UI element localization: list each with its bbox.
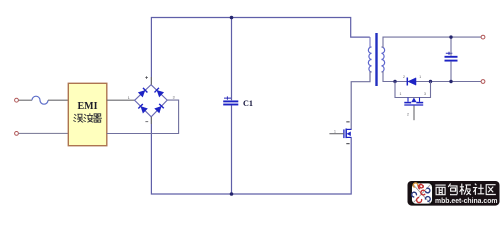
bridge gray stubs (150, 77, 152, 85)
diode BR1-D4 lower-right (155, 104, 164, 113)
svg-text:3: 3 (173, 96, 175, 100)
label 滤波器 (hand-drawn glyphs) (74, 114, 102, 123)
transistor Q2 sync rectifier MOSFET (404, 98, 423, 106)
svg-text:1: 1 (128, 96, 130, 100)
滤 (74, 114, 76, 121)
pin label S dash (346, 143, 349, 144)
node junction secondary left (393, 80, 396, 83)
transformer T1 primary lead bottom (351, 72, 371, 130)
svg-text:2: 2 (403, 75, 405, 79)
terminal J1 input top (15, 98, 19, 102)
capacitor C1 plus mark (224, 96, 231, 99)
svg-text:2: 2 (407, 113, 409, 117)
transformer T1 secondary lead bottom (382, 72, 396, 82)
wire sync MOSFET loop (395, 82, 431, 98)
logo icon (411, 183, 433, 205)
wire EMI box bottom to bridge right (loop) (107, 100, 179, 133)
transistor Q1 main switching MOSFET (344, 129, 352, 139)
node junction bottom rail / C1 (230, 192, 234, 196)
板 (460, 184, 471, 195)
wire Q1 gate lead (329, 133, 344, 135)
node junction secondary right (429, 80, 432, 83)
wire top rail (151, 18, 369, 85)
svg-text:mbb.eet-china.com: mbb.eet-china.com (435, 196, 498, 205)
terminal J3 output top (481, 35, 485, 39)
wire bottom rail (151, 117, 351, 194)
wire C1 vertical bottom (231, 105, 233, 194)
terminal J2 input bottom (15, 132, 19, 136)
svg-text:3: 3 (424, 92, 426, 96)
svg-text:1: 1 (334, 129, 336, 133)
diode D1 output rectifier (points left) (407, 78, 416, 86)
pin label D dash (346, 121, 349, 122)
wire Q2 gate lead (413, 106, 415, 121)
svg-text:1: 1 (419, 75, 421, 79)
diode BR1-D1 upper-left (138, 88, 147, 97)
node junction C2 bottom (449, 80, 452, 83)
fuse F1 squiggle (32, 96, 48, 104)
包 (448, 184, 457, 195)
面 (435, 185, 445, 195)
transformer T1 primary winding (368, 47, 371, 72)
transformer T1 primary lead top (369, 37, 371, 47)
transformer T1 core (375, 33, 377, 86)
svg-text:EMI: EMI (78, 101, 98, 112)
terminal J4 output bottom (481, 80, 485, 84)
wire input top to fuse (19, 99, 32, 101)
capacitor C1 plates (223, 100, 238, 102)
器 (93, 114, 101, 122)
pin label - (bottom) (145, 121, 148, 123)
pin label + (top) (145, 76, 148, 79)
diode BR1-D3 lower-left (138, 104, 147, 113)
node junction top rail / C1 (230, 16, 234, 20)
svg-text:1: 1 (400, 92, 402, 96)
bridge rectifier BR1 diamond edges (135, 85, 168, 117)
transformer T1 secondary winding (382, 47, 385, 72)
transformer T1 secondary lead top + wire to output (382, 37, 482, 47)
wire C1 vertical top (231, 18, 233, 101)
社 (473, 184, 484, 195)
波 (84, 114, 86, 121)
capacitor C2 plates (445, 56, 458, 58)
wire secondary output line (395, 81, 481, 83)
EMI filter box U1 (68, 83, 107, 145)
wire EMI box to bridge left (107, 99, 135, 101)
capacitor C2 output plus mark (446, 52, 453, 55)
wire C2 vertical (450, 37, 452, 56)
node junction C2 top (449, 35, 452, 38)
diode BR1-D2 upper-right (155, 88, 164, 97)
watermark badge (408, 181, 500, 206)
区 (486, 185, 496, 195)
wire fuse to EMI box (48, 99, 68, 101)
label 面包板社区 (hand-drawn white glyphs) (435, 184, 496, 195)
svg-text:C1: C1 (243, 99, 253, 108)
wire input bottom to EMI box (19, 132, 69, 134)
